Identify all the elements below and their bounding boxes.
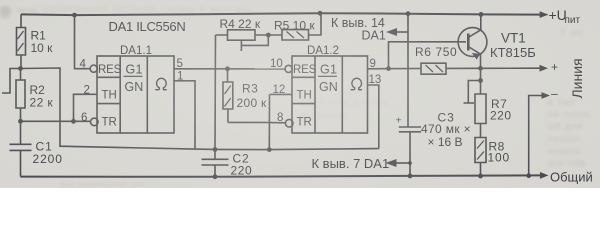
pin circle TR1 pin6 [91,118,99,126]
pin circle RES2 pin10 [285,65,292,72]
svg-text:TH: TH [297,90,312,102]
node junction TH tap [71,119,76,124]
wire minus line [529,96,544,176]
wire bracket tick [468,81,480,104]
svg-text:КТ815Б: КТ815Б [490,45,536,60]
wire node A to pin1 DIS net [21,68,379,150]
svg-text:G1: G1 [320,63,337,77]
node junction vertical/DIS net wire [267,147,272,152]
label omega 1 [155,78,166,89]
pin circle TR2 pin8 [285,119,293,127]
wire base bracket [389,42,467,69]
wire bottom common rail [21,175,542,176]
wire pin5 out to pin10 [174,68,285,70]
op-amp U1 box DA1.1 [97,56,174,133]
wire line plus arrow [481,67,542,69]
wire pin9 out [368,68,422,70]
node junction rail/collector [479,12,484,17]
node junction R4/R5 [266,33,271,38]
wire TR node [21,120,91,122]
wire R3 to TR2 [228,121,269,123]
wire к выв 14 arrow [396,31,408,33]
wire top supply rail [21,13,541,15]
svg-text:2200: 2200 [33,152,63,166]
resistor R2 [16,69,25,122]
svg-text:Общий: Общий [550,170,593,185]
capacitor C2 [202,149,229,176]
resistor R7 [475,68,486,137]
wire TR2 lead [269,122,285,124]
svg-text:6: 6 [81,112,87,124]
capacitor C1 [10,121,32,176]
scan bleed-through artifacts [2,4,592,15]
svg-text:R3: R3 [242,82,258,96]
svg-text:G1: G1 [126,63,143,77]
wire TH/TR staple DA1.2 [268,94,270,149]
wire к выв 7 arrow [396,162,410,164]
node junction C2/common rail [213,174,218,179]
svg-text:100: 100 [488,151,510,165]
trimmer R4 wiper tap [241,35,268,51]
svg-text:RES: RES [293,64,317,76]
svg-text:22 к: 22 к [30,96,54,110]
wire R4 left to C2 [214,35,217,149]
node junction C2 top [213,147,218,152]
svg-text:× 16 В: × 16 В [428,135,463,149]
transistor emitter [468,47,480,69]
pin circle RES1 pin4 [90,65,97,72]
node junction rail/R5 [318,11,323,16]
svg-text:TR: TR [297,117,312,129]
node junction emitter [478,66,483,71]
svg-text:–: – [551,87,558,101]
wire pin13 lead [368,85,379,149]
node junction rail/RES1 [72,13,77,18]
svg-text:+: + [551,60,558,74]
op-amp U2 box DA1.2 [292,56,368,133]
svg-text:2: 2 [84,85,90,97]
svg-text:220: 220 [231,164,253,178]
wire TH staple [74,94,97,121]
node junction arrow7/C3 [408,161,412,165]
node junction R8/common [478,174,483,179]
wire node A to left edge [2,69,21,94]
svg-text:TH: TH [102,90,117,102]
svg-text:+: + [396,115,402,127]
node junction rail/C3 [406,11,411,16]
wire +Upit arrowhead [541,14,548,16]
svg-text:9: 9 [370,58,376,70]
svg-text:220: 220 [490,109,512,123]
wire TH2 lead [270,93,293,95]
svg-text:200 к: 200 к [237,96,268,110]
transistor collector [468,14,481,37]
svg-text:R6 750: R6 750 [415,45,457,59]
node junction R2/C1/TR wire [18,119,23,124]
svg-text:RES: RES [98,64,122,76]
node junction C3/common [408,174,413,179]
node junction R7 tap [478,78,483,83]
svg-text:GN: GN [319,80,338,94]
svg-text:12: 12 [273,84,286,96]
svg-text:DA1: DA1 [362,29,386,43]
svg-text:R5 10 к: R5 10 к [274,19,315,33]
svg-text:К выв. 7 DA1: К выв. 7 DA1 [312,156,390,171]
resistor R8 [475,138,486,177]
svg-text:8: 8 [277,112,283,124]
svg-text:5: 5 [177,58,183,70]
svg-text:1: 1 [177,71,183,83]
svg-text:Линия: Линия [569,58,585,98]
wire Obshchiy arrowhead [540,172,549,179]
wire Vcc vertical to C3 [407,14,409,127]
capacitor C3 [399,127,421,176]
node junction R3 top [225,66,230,71]
node junction pin9/base [386,66,391,71]
wire RES1 from rail [75,15,91,69]
svg-text:GN: GN [125,80,144,94]
transistor base bar [467,34,470,51]
resistor R1 [17,14,26,68]
label omega 2 [351,78,362,89]
wire pin1 lead [174,81,195,149]
node A junction R1/R2 [18,66,23,71]
svg-text:470 мк ×: 470 мк × [421,122,471,136]
resistor R4 [216,30,269,40]
svg-text:DA1.2: DA1.2 [307,45,339,57]
svg-text:R4 22 к: R4 22 к [220,17,261,31]
svg-text:VT1: VT1 [501,31,526,46]
svg-text:пит: пит [565,15,581,26]
svg-text:TR: TR [102,117,117,129]
resistor R3 [223,69,233,123]
svg-text:DA1 ILC556N: DA1 ILC556N [109,19,186,34]
resistor R5 [268,13,321,40]
svg-text:13: 13 [369,74,382,86]
transistor Q1 VT1 circle [458,28,487,57]
svg-text:4: 4 [80,59,87,71]
svg-text:10: 10 [270,58,283,70]
node junction minus/common [526,173,531,178]
svg-text:10 к: 10 к [31,41,54,55]
svg-text:DA1.1: DA1.1 [120,45,152,57]
resistor R6 [421,63,481,74]
